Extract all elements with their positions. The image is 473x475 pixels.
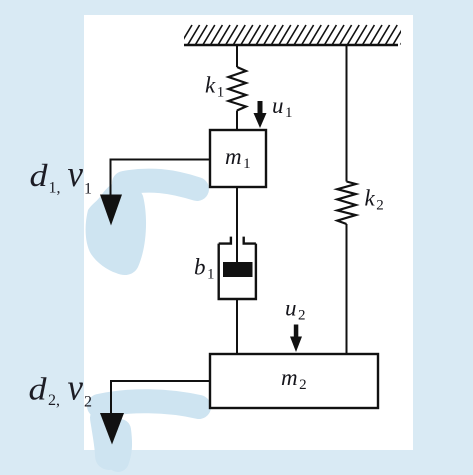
svg-text:v: v — [68, 154, 84, 195]
wire ceiling to spring k1 — [236, 45, 238, 67]
rod damper to mass m2 — [236, 299, 238, 354]
svg-text:d: d — [30, 157, 49, 193]
svg-text:k2: k2 — [365, 186, 384, 214]
svg-text:1: 1 — [84, 181, 92, 198]
svg-text:2: 2 — [84, 394, 92, 411]
ceiling (fixed support, hatched) — [180, 25, 412, 45]
svg-text:k1: k1 — [205, 73, 224, 101]
highlighter scribble d1,v1 — [86, 181, 197, 275]
svg-text:v: v — [68, 368, 84, 409]
rod m1 to damper piston — [236, 187, 238, 263]
wire m1 to left arrow — [111, 160, 211, 198]
damper b1 piston — [223, 262, 253, 277]
damper b1 cylinder — [219, 237, 256, 299]
svg-text:u1: u1 — [272, 93, 293, 121]
arrow d2,v2 — [100, 413, 124, 445]
force arrow u2 — [290, 325, 302, 353]
wire m2 to left arrow — [111, 381, 210, 415]
wire ceiling to spring k2 — [346, 45, 348, 182]
spring k2 — [337, 182, 356, 225]
svg-text:b1: b1 — [194, 255, 215, 283]
spring k1 — [229, 67, 247, 111]
white slide panel — [84, 15, 413, 450]
wire spring k1 to mass m1 — [236, 111, 238, 131]
force arrow u1 — [254, 101, 267, 128]
mass m1 — [210, 130, 266, 187]
mass m2 — [210, 354, 378, 408]
wire spring k2 to mass m2 — [346, 224, 348, 354]
svg-text:1,: 1, — [49, 180, 61, 197]
svg-text:2,: 2, — [48, 392, 60, 409]
arrow d1,v1 — [100, 195, 122, 226]
svg-text:u2: u2 — [285, 296, 306, 324]
highlighter scribble d2,v2 — [99, 401, 199, 461]
svg-text:d: d — [29, 371, 48, 407]
